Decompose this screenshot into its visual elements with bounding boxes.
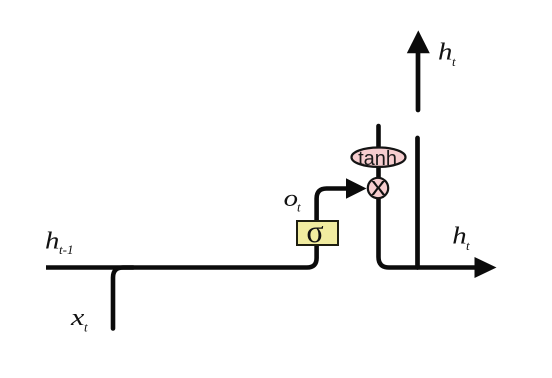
svg-text:σ: σ [306,213,323,249]
label h_t top [438,38,452,65]
svg-text:x: x [70,304,84,331]
svg-text:h: h [452,222,466,249]
wire: vertical branch from output line up (below gap) [415,138,420,268]
svg-text:t: t [452,54,456,69]
arrowhead into multiply node [346,178,367,199]
label h_{t-1} [45,227,59,254]
arrowhead right h_t [475,257,497,278]
svg-text:h: h [438,38,452,65]
wire: h_t upward arrow shaft [416,50,421,110]
sigma box [297,221,338,245]
svg-text:x: x [371,171,386,201]
svg-text:t: t [297,200,301,215]
svg-text:tanh: tanh [358,148,397,170]
multiply node circle [368,178,388,198]
tanh ellipse [352,148,406,167]
svg-text:t: t [466,238,470,253]
wire: x_t vertical line merging into main horizontal line [113,268,133,329]
svg-text:t: t [84,319,88,334]
wire: sigma output up then right toward multiply node [317,189,348,223]
wire: tanh vertical line down, curving right into output line with right arrow [379,126,477,268]
arrowhead up h_t [407,30,430,53]
svg-text:t-1: t-1 [59,242,73,257]
label o_t [284,184,298,211]
svg-text:o: o [284,184,298,211]
label h_t right [452,222,466,249]
wire: h_{t-1} horizontal line curving up into sigma box [46,244,317,268]
svg-text:h: h [45,227,59,254]
multiply x glyph [371,171,386,201]
label x_t [70,304,84,331]
